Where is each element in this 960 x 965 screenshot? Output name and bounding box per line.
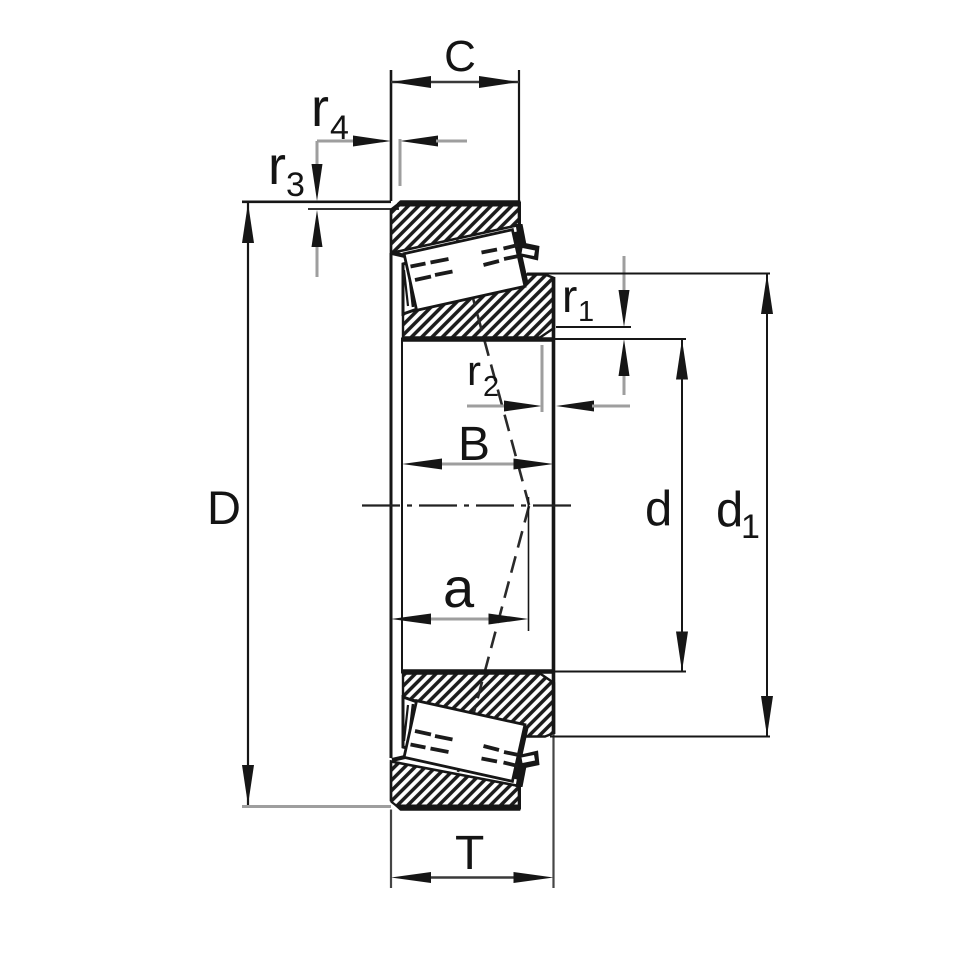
inner ring small-end rib detail bottom (403, 697, 420, 750)
pressure line (dashed) top (457, 239, 529, 505)
inner ring small-end rib detail top (403, 261, 420, 314)
r3 reference lines (242, 201, 391, 204)
svg-text:1: 1 (578, 296, 594, 328)
outer ring (cup) bottom section (389, 762, 520, 812)
svg-text:1: 1 (741, 508, 760, 546)
dimension r2 (467, 345, 630, 412)
D bottom reference line (242, 805, 391, 808)
bore line top (inner ring bore) (402, 337, 554, 341)
inner ring (cone) bottom section (403, 674, 554, 745)
cage lip top (517, 242, 540, 261)
dimension d (554, 339, 688, 672)
dimension r4 (311, 78, 467, 186)
tapered roller top (404, 230, 525, 311)
svg-text:T: T (455, 827, 484, 880)
inner ring (cone) top section (403, 267, 554, 338)
roller big end face overdraw bottom (515, 727, 527, 780)
svg-text:d: d (645, 482, 672, 536)
svg-text:D: D (207, 481, 241, 534)
dimension T (391, 827, 554, 883)
cup front face silhouette line x=391 (390, 70, 393, 201)
cone front face silhouette line x=402 (401, 338, 403, 674)
outer ring (cup) top section (389, 200, 520, 254)
svg-text:a: a (443, 556, 475, 619)
svg-text:r: r (268, 136, 286, 196)
svg-text:r: r (562, 270, 577, 322)
svg-text:3: 3 (286, 166, 305, 204)
dimension C (391, 32, 519, 88)
axis centerline (362, 504, 572, 506)
dimension r3 (268, 136, 323, 277)
dimension r1 (556, 256, 631, 395)
svg-text:d: d (716, 483, 743, 537)
svg-text:r: r (311, 78, 329, 138)
cup raceway left end junction top (392, 253, 405, 256)
svg-text:C: C (444, 32, 476, 81)
roller dashed lines top (411, 244, 524, 280)
dimension B (402, 418, 554, 471)
dimension D (207, 203, 254, 805)
cone back face silhouette line x=554 (552, 277, 556, 734)
roller dashed lines bottom (411, 731, 524, 767)
bore line bottom (402, 669, 554, 673)
cup raceway left end junction bottom (392, 757, 405, 760)
pressure line (dashed) bottom (458, 506, 529, 772)
roller big end face overdraw top (515, 232, 527, 285)
tapered roller bottom (404, 701, 525, 782)
cage lip bottom (517, 751, 540, 770)
svg-text:B: B (458, 418, 490, 471)
svg-text:r: r (467, 347, 481, 394)
dimension a (391, 497, 529, 631)
cup back face extension x=519 top (518, 70, 520, 202)
svg-text:4: 4 (330, 109, 349, 147)
svg-text:2: 2 (483, 371, 499, 403)
dimension d1 (527, 274, 773, 737)
